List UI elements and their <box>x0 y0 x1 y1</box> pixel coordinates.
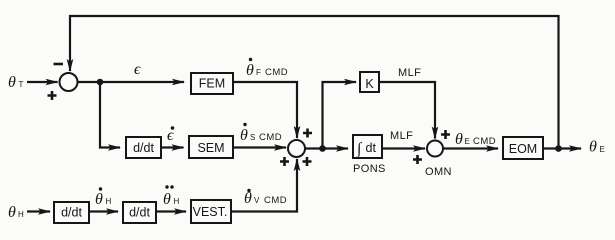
wire feedback loop from node J3 to summing junction S1 <box>70 16 559 150</box>
node OMN label <box>425 166 452 178</box>
wire to second d/dt <box>89 210 118 212</box>
svg-text:d/dt: d/dt <box>129 206 150 220</box>
svg-text:SEM: SEM <box>197 141 224 155</box>
block FEM <box>191 73 233 94</box>
svg-text:FEM: FEM <box>199 77 225 91</box>
block d/dt second (head acceleration) <box>123 202 156 223</box>
summing junction S1 <box>60 73 78 91</box>
block d/dt (error rate) <box>126 137 161 158</box>
svg-text:E: E <box>600 145 605 154</box>
node theta_H_ddot label <box>163 185 180 208</box>
svg-text:θ: θ <box>244 190 252 207</box>
node theta_H_dot label <box>95 187 112 208</box>
node PONS label <box>353 163 386 175</box>
wire J2 up to K block <box>323 82 357 149</box>
wire S2 output to node J2 and to integrator <box>305 147 348 149</box>
wire d/dt to SEM <box>161 146 184 148</box>
wire VEST output up into S2 bottom input <box>231 159 297 212</box>
svg-text:d/dt: d/dt <box>133 141 154 155</box>
wire FEM output to S2 top input <box>233 82 297 138</box>
node theta_T input label <box>8 74 24 91</box>
node epsilon_dot label <box>167 126 174 144</box>
svg-text:ϵ: ϵ <box>134 61 141 78</box>
svg-text:θ: θ <box>8 74 16 91</box>
sign plus at S2 bottom-right <box>303 157 312 166</box>
node theta_E CMD label <box>455 131 496 148</box>
summing junction S2 <box>288 140 305 157</box>
svg-text:H: H <box>174 197 180 206</box>
node theta_E output label <box>589 139 605 156</box>
sign plus at S1 left input <box>48 91 57 100</box>
svg-text:CMD: CMD <box>264 195 287 206</box>
node theta_H input label <box>8 204 24 221</box>
sign plus at OMN top-right <box>441 130 450 139</box>
block EOM <box>503 137 543 159</box>
svg-text:θ: θ <box>163 191 171 208</box>
wire OMN output to EOM <box>443 147 498 149</box>
node theta_F_dot CMD label <box>246 58 288 79</box>
svg-text:V: V <box>254 196 260 205</box>
node theta_S_dot CMD label <box>240 123 282 144</box>
block K <box>360 72 379 92</box>
node J2 junction dot <box>319 145 326 152</box>
svg-text:K: K <box>365 77 374 91</box>
svg-text:MLF: MLF <box>390 130 413 142</box>
block SEM <box>189 136 233 158</box>
wire J1 down to d/dt of row 2 <box>100 82 120 148</box>
svg-text:MLF: MLF <box>398 67 421 79</box>
svg-text:S: S <box>250 133 255 142</box>
svg-text:F: F <box>256 68 261 77</box>
svg-text:ϵ: ϵ <box>167 127 174 144</box>
wire EOM output to node J3 and output arrow <box>543 147 581 149</box>
block integrator PONS <box>353 135 382 159</box>
sign plus at OMN bottom-left <box>413 155 422 164</box>
svg-text:θ: θ <box>589 139 597 156</box>
svg-text:θ: θ <box>8 204 16 221</box>
wire input arrow into S1 <box>27 81 58 83</box>
svg-text:H: H <box>106 197 112 206</box>
svg-text:CMD: CMD <box>265 67 288 78</box>
svg-text:OMN: OMN <box>425 166 452 178</box>
svg-text:θ: θ <box>240 127 248 144</box>
node MLF label (integrator output) <box>390 130 413 142</box>
svg-text:H: H <box>18 210 24 219</box>
node MLF label (K output) <box>398 67 421 79</box>
sign plus at S2 top-right <box>303 129 312 138</box>
svg-text:θ: θ <box>455 131 463 148</box>
sign plus at S2 bottom-left <box>280 157 289 166</box>
wire S1 output to node J1 and on to FEM <box>78 81 185 83</box>
node epsilon label <box>134 61 141 78</box>
wire K output to OMN top input <box>379 82 435 139</box>
svg-text:E: E <box>465 137 470 146</box>
summing junction S3 OMN <box>427 141 443 157</box>
svg-text:dt: dt <box>366 141 377 155</box>
svg-text:T: T <box>19 80 24 89</box>
sign minus at S1 top input <box>54 63 64 66</box>
wire to VEST <box>156 210 186 212</box>
node theta_V_dot CMD label <box>244 189 287 207</box>
svg-text:CMD: CMD <box>259 132 282 143</box>
svg-text:CMD: CMD <box>473 136 496 147</box>
block VEST <box>191 200 231 223</box>
node J1 junction dot <box>97 79 104 86</box>
svg-text:EOM: EOM <box>509 142 537 156</box>
svg-text:d/dt: d/dt <box>61 206 82 220</box>
svg-text:θ: θ <box>246 62 254 79</box>
svg-text:θ: θ <box>95 191 103 208</box>
svg-text:PONS: PONS <box>353 163 386 175</box>
svg-text:VEST.: VEST. <box>193 205 228 219</box>
wire SEM output to S2 left input <box>233 146 286 148</box>
block d/dt first (head velocity) <box>54 202 89 223</box>
node J3 junction dot <box>555 145 562 152</box>
wire head input arrow <box>27 210 50 212</box>
wire integrator output to OMN left input <box>382 147 425 149</box>
